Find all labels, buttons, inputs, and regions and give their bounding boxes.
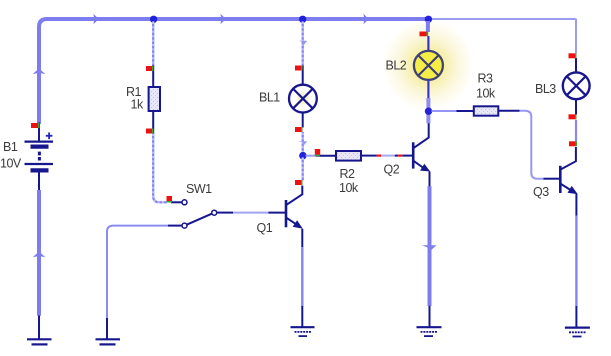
current direction arrow on Q2 emitter wire bbox=[422, 245, 436, 251]
current indicator on BL1 top lead bbox=[295, 66, 301, 71]
ground (Q1) bbox=[291, 306, 315, 336]
svg-text:Q3: Q3 bbox=[533, 185, 549, 199]
node C (top bus above BL2) bbox=[425, 16, 432, 23]
current indicator on R1 top lead bbox=[146, 66, 152, 71]
ground (battery) bbox=[27, 316, 52, 345]
current indicator on R2-Q2 wire (right) bbox=[398, 155, 402, 157]
current indicator on battery top lead bbox=[31, 123, 38, 128]
wire top bus to BL1 bbox=[302, 21, 304, 66]
switch SW1 bbox=[171, 200, 233, 228]
wire R3 to Q3 base bbox=[520, 111, 544, 179]
wire BL1 to node B bbox=[302, 132, 304, 152]
wire BL2 to node D bbox=[426, 98, 430, 109]
wire battery negative to ground bbox=[37, 190, 41, 316]
ground (SW1) bbox=[96, 318, 121, 344]
current direction arrow on top bus (right) bbox=[363, 14, 368, 24]
svg-text:Q2: Q2 bbox=[384, 163, 400, 177]
wire node B to Q1 collector bbox=[302, 157, 304, 181]
ground (Q3) bbox=[565, 306, 590, 337]
battery B1 bbox=[25, 123, 54, 192]
node B (BL1 / R2 / Q1 collector) bbox=[299, 152, 307, 160]
current indicator on BL1 bottom lead bbox=[295, 127, 301, 132]
node on top bus above BL1 bbox=[299, 16, 306, 23]
wire R2 to Q2 base bbox=[361, 155, 377, 157]
svg-text:R2: R2 bbox=[340, 167, 356, 181]
svg-text:B1: B1 bbox=[3, 140, 18, 154]
resistor R1 bbox=[152, 66, 154, 89]
current indicator on node B right wire bbox=[315, 149, 320, 155]
transistor Q1 bbox=[286, 186, 302, 248]
node A (top bus / R1) bbox=[150, 16, 157, 23]
current direction arrow on battery top wire bbox=[33, 68, 46, 74]
current direction arrow (down) on BL1 top wire bbox=[298, 41, 307, 47]
wire SW1 to Q1 base bbox=[233, 212, 268, 214]
transistor Q2 bbox=[413, 123, 429, 187]
wire SW1 to ground bbox=[107, 226, 169, 319]
svg-text:10V: 10V bbox=[0, 157, 22, 171]
current indicator on SW1 top wire bbox=[167, 196, 173, 201]
svg-text:Q1: Q1 bbox=[257, 221, 273, 235]
wire Q1 emitter to ground bbox=[301, 247, 303, 307]
wire thin bus from node C to BL3 bbox=[430, 19, 577, 53]
current indicator on BL3 top lead bbox=[569, 53, 576, 58]
wire BL3 to Q3 collector bbox=[575, 120, 577, 142]
wire node C to BL2 bbox=[426, 21, 430, 32]
current direction arrow on top bus (left) bbox=[93, 14, 98, 24]
svg-text:10k: 10k bbox=[339, 181, 359, 195]
svg-text:1k: 1k bbox=[131, 98, 144, 112]
resistor R2 bbox=[336, 151, 361, 161]
lamp BL2 (lit) bbox=[414, 36, 443, 99]
ground (Q2) bbox=[417, 306, 442, 336]
node D (BL2 / R3 / Q2 collector) bbox=[425, 108, 432, 115]
wire R3 right lead bbox=[498, 110, 520, 112]
wire node D to R3 bbox=[432, 110, 457, 112]
current indicator on BL2 top lead bbox=[420, 32, 427, 37]
current direction arrow (down) on BL1 bottom wire bbox=[298, 141, 307, 147]
current indicator on Q1 collector lead bbox=[295, 180, 301, 185]
battery plus sign bbox=[46, 133, 53, 140]
svg-text:BL3: BL3 bbox=[535, 82, 556, 96]
svg-text:BL2: BL2 bbox=[386, 59, 407, 73]
svg-text:BL1: BL1 bbox=[259, 91, 280, 105]
svg-text:R3: R3 bbox=[478, 72, 494, 86]
wire R1 to SW1 bbox=[153, 133, 167, 202]
wire node B to R2 bbox=[306, 155, 317, 157]
wire Q2 emitter to ground bbox=[428, 186, 432, 306]
svg-text:SW1: SW1 bbox=[186, 182, 212, 196]
current indicator on R2-Q2 wire (left) bbox=[377, 155, 382, 157]
current direction arrow on battery bottom wire bbox=[33, 251, 46, 257]
transistor Q3 bbox=[560, 147, 576, 216]
wire top bus (battery positive to Q2 collector node) bbox=[39, 19, 430, 124]
current indicator on R1 bottom lead bbox=[146, 129, 152, 134]
lamp BL1 bbox=[289, 66, 317, 128]
svg-text:10k: 10k bbox=[476, 87, 496, 101]
current direction arrow on top bus (middle) bbox=[220, 14, 225, 24]
lamp BL3 bbox=[563, 58, 590, 115]
wire node A to R1 bbox=[152, 21, 154, 66]
lamp BL2 glow bbox=[381, 18, 475, 112]
wire node D to Q2 collector bbox=[426, 114, 430, 124]
wire Q3 emitter to ground bbox=[575, 216, 577, 307]
current indicator on BL3 bottom lead bbox=[569, 114, 576, 119]
resistor R3 bbox=[474, 106, 499, 115]
current indicator on Q3 collector lead bbox=[569, 141, 576, 146]
